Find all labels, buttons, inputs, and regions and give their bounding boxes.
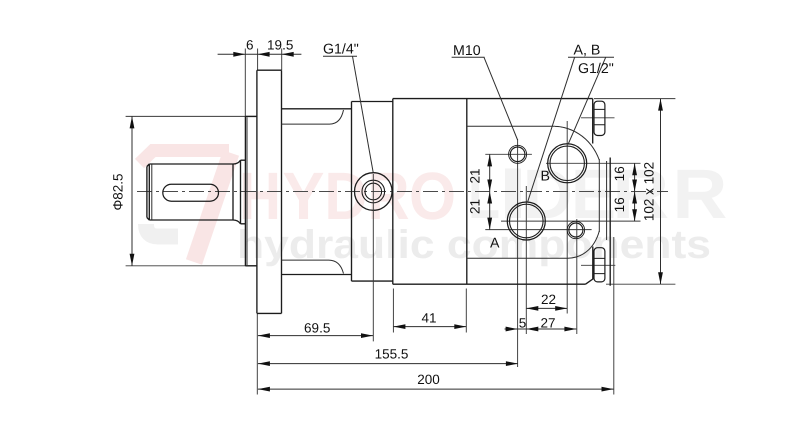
- svg-text:41: 41: [421, 311, 436, 326]
- svg-text:5: 5: [519, 316, 527, 331]
- svg-text:16: 16: [612, 166, 627, 181]
- svg-text:16: 16: [612, 197, 627, 212]
- svg-text:6: 6: [246, 38, 254, 53]
- svg-text:27: 27: [540, 316, 555, 331]
- svg-text:19.5: 19.5: [267, 38, 293, 53]
- svg-text:A: A: [490, 236, 500, 252]
- svg-text:L: L: [468, 155, 500, 233]
- svg-text:102 x 102: 102 x 102: [642, 162, 657, 221]
- svg-text:21: 21: [467, 168, 482, 183]
- svg-text:R: R: [672, 155, 727, 233]
- svg-text:G1/2": G1/2": [578, 61, 614, 77]
- svg-text:69.5: 69.5: [304, 321, 330, 336]
- svg-text:G1/4": G1/4": [323, 42, 359, 58]
- svg-text:21: 21: [467, 199, 482, 214]
- svg-text:155.5: 155.5: [375, 347, 409, 362]
- svg-text:200: 200: [417, 372, 440, 387]
- svg-text:22: 22: [541, 292, 556, 307]
- svg-text:M10: M10: [453, 43, 481, 59]
- svg-text:Φ82.5: Φ82.5: [111, 173, 126, 210]
- svg-text:A, B: A, B: [574, 43, 601, 59]
- svg-text:B: B: [541, 168, 550, 184]
